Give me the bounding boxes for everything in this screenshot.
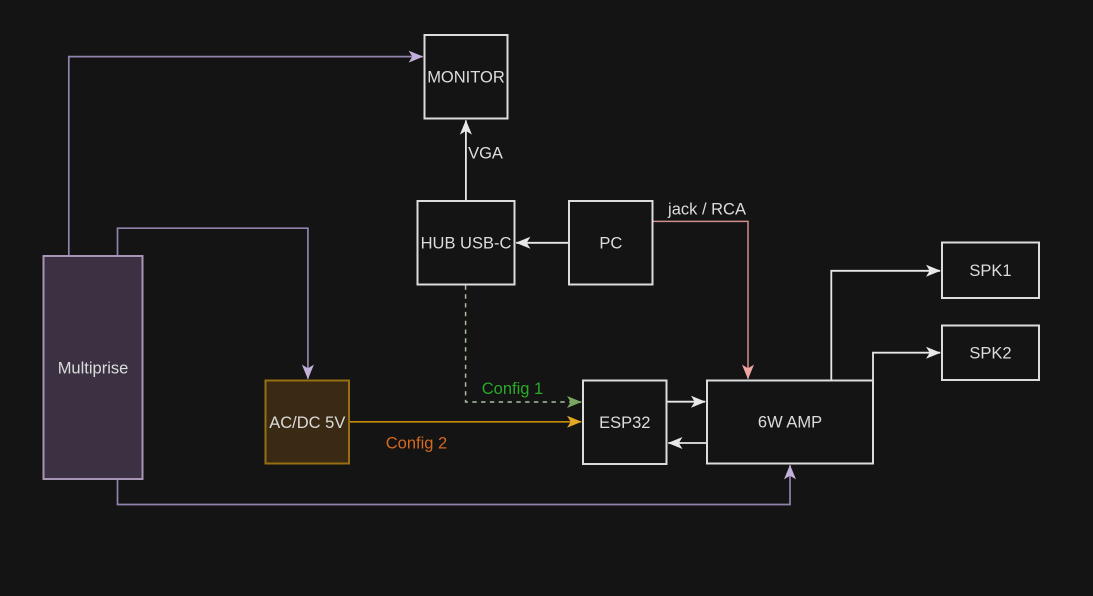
svg-text:PC: PC — [599, 235, 622, 253]
svg-text:Config 2: Config 2 — [386, 435, 447, 453]
svg-text:Multiprise: Multiprise — [58, 360, 129, 378]
svg-text:6W AMP: 6W AMP — [758, 414, 822, 432]
box MONITOR — [425, 35, 508, 119]
svg-text:HUB USB-C: HUB USB-C — [421, 235, 512, 253]
svg-text:jack / RCA: jack / RCA — [667, 201, 746, 219]
box 6W AMP — [707, 381, 873, 464]
wire 6W AMP to SPK1 (white) — [831, 271, 940, 380]
wire Multiprise to MONITOR (purple) — [69, 57, 423, 255]
box AC/DC 5V — [266, 381, 350, 464]
box SPK2 — [942, 326, 1039, 381]
box SPK1 — [942, 243, 1039, 299]
wire HUB USB-C to ESP32 (green dashed, Config 1) — [466, 286, 582, 403]
box ESP32 — [583, 381, 667, 465]
wire Multiprise to AC/DC 5V (purple) — [118, 228, 308, 379]
wire ESP32 to 6W AMP (white) — [668, 401, 706, 403]
svg-text:AC/DC 5V: AC/DC 5V — [269, 414, 345, 432]
wire AC/DC 5V to ESP32 (orange, Config 2) — [350, 421, 581, 423]
svg-text:SPK1: SPK1 — [969, 262, 1011, 280]
wire PC to HUB USB-C (white) — [516, 242, 568, 244]
wire PC to 6W AMP (red, jack / RCA) — [654, 221, 749, 378]
wire 6W AMP to ESP32 (white) — [668, 442, 706, 444]
svg-text:SPK2: SPK2 — [969, 345, 1011, 363]
svg-text:Config 1: Config 1 — [482, 380, 543, 398]
wire HUB USB-C to MONITOR (white, VGA) — [465, 120, 467, 200]
svg-text:ESP32: ESP32 — [599, 414, 650, 432]
svg-text:VGA: VGA — [468, 145, 503, 163]
wire Multiprise to 6W AMP (purple, bottom) — [118, 465, 791, 504]
box HUB USB-C — [418, 201, 515, 285]
svg-text:MONITOR: MONITOR — [427, 69, 505, 87]
box PC — [569, 201, 653, 285]
wire 6W AMP to SPK2 (white) — [873, 353, 940, 380]
box Multiprise — [44, 256, 143, 479]
